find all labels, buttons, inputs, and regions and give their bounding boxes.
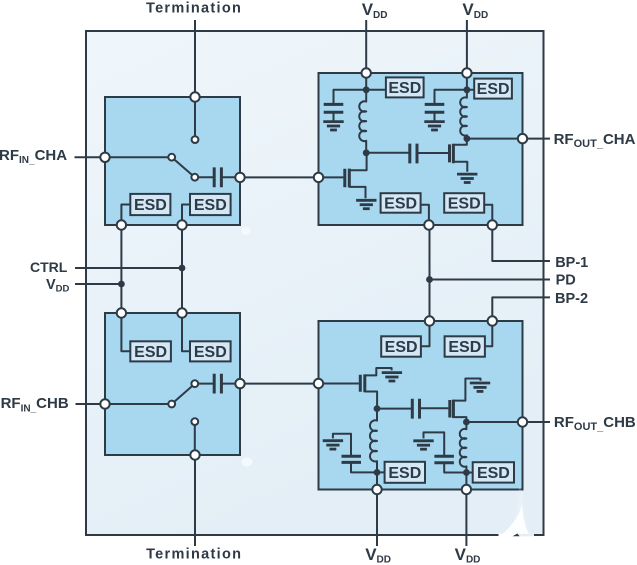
svg-text:ESD: ESD bbox=[448, 196, 481, 213]
svg-text:PD: PD bbox=[556, 273, 576, 289]
svg-text:ESD: ESD bbox=[384, 196, 417, 213]
svg-text:VDD: VDD bbox=[462, 0, 488, 21]
svg-text:ESD: ESD bbox=[388, 465, 421, 482]
svg-text:ESD: ESD bbox=[385, 339, 418, 356]
svg-text:RFIN_CHB: RFIN_CHB bbox=[1, 395, 69, 414]
svg-text:CTRL: CTRL bbox=[30, 259, 68, 275]
svg-text:VDD: VDD bbox=[362, 0, 388, 21]
svg-text:VDD: VDD bbox=[46, 277, 70, 295]
svg-text:RFOUT_CHB: RFOUT_CHB bbox=[554, 414, 636, 433]
svg-text:ESD: ESD bbox=[194, 344, 227, 361]
svg-text:VDD: VDD bbox=[455, 545, 481, 565]
svg-text:RFIN_CHA: RFIN_CHA bbox=[0, 147, 67, 166]
svg-text:ESD: ESD bbox=[134, 344, 167, 361]
svg-text:Termination: Termination bbox=[146, 546, 242, 562]
svg-text:ESD: ESD bbox=[477, 81, 510, 98]
svg-text:BP-1: BP-1 bbox=[555, 255, 588, 271]
svg-text:ESD: ESD bbox=[477, 465, 510, 482]
svg-text:ESD: ESD bbox=[134, 197, 167, 214]
svg-text:RFOUT_CHA: RFOUT_CHA bbox=[554, 131, 636, 150]
svg-text:BP-2: BP-2 bbox=[555, 291, 588, 307]
svg-text:ESD: ESD bbox=[194, 197, 227, 214]
svg-text:ESD: ESD bbox=[388, 80, 421, 97]
svg-text:Termination: Termination bbox=[146, 1, 242, 17]
svg-text:VDD: VDD bbox=[365, 545, 391, 565]
svg-text:ESD: ESD bbox=[448, 339, 481, 356]
